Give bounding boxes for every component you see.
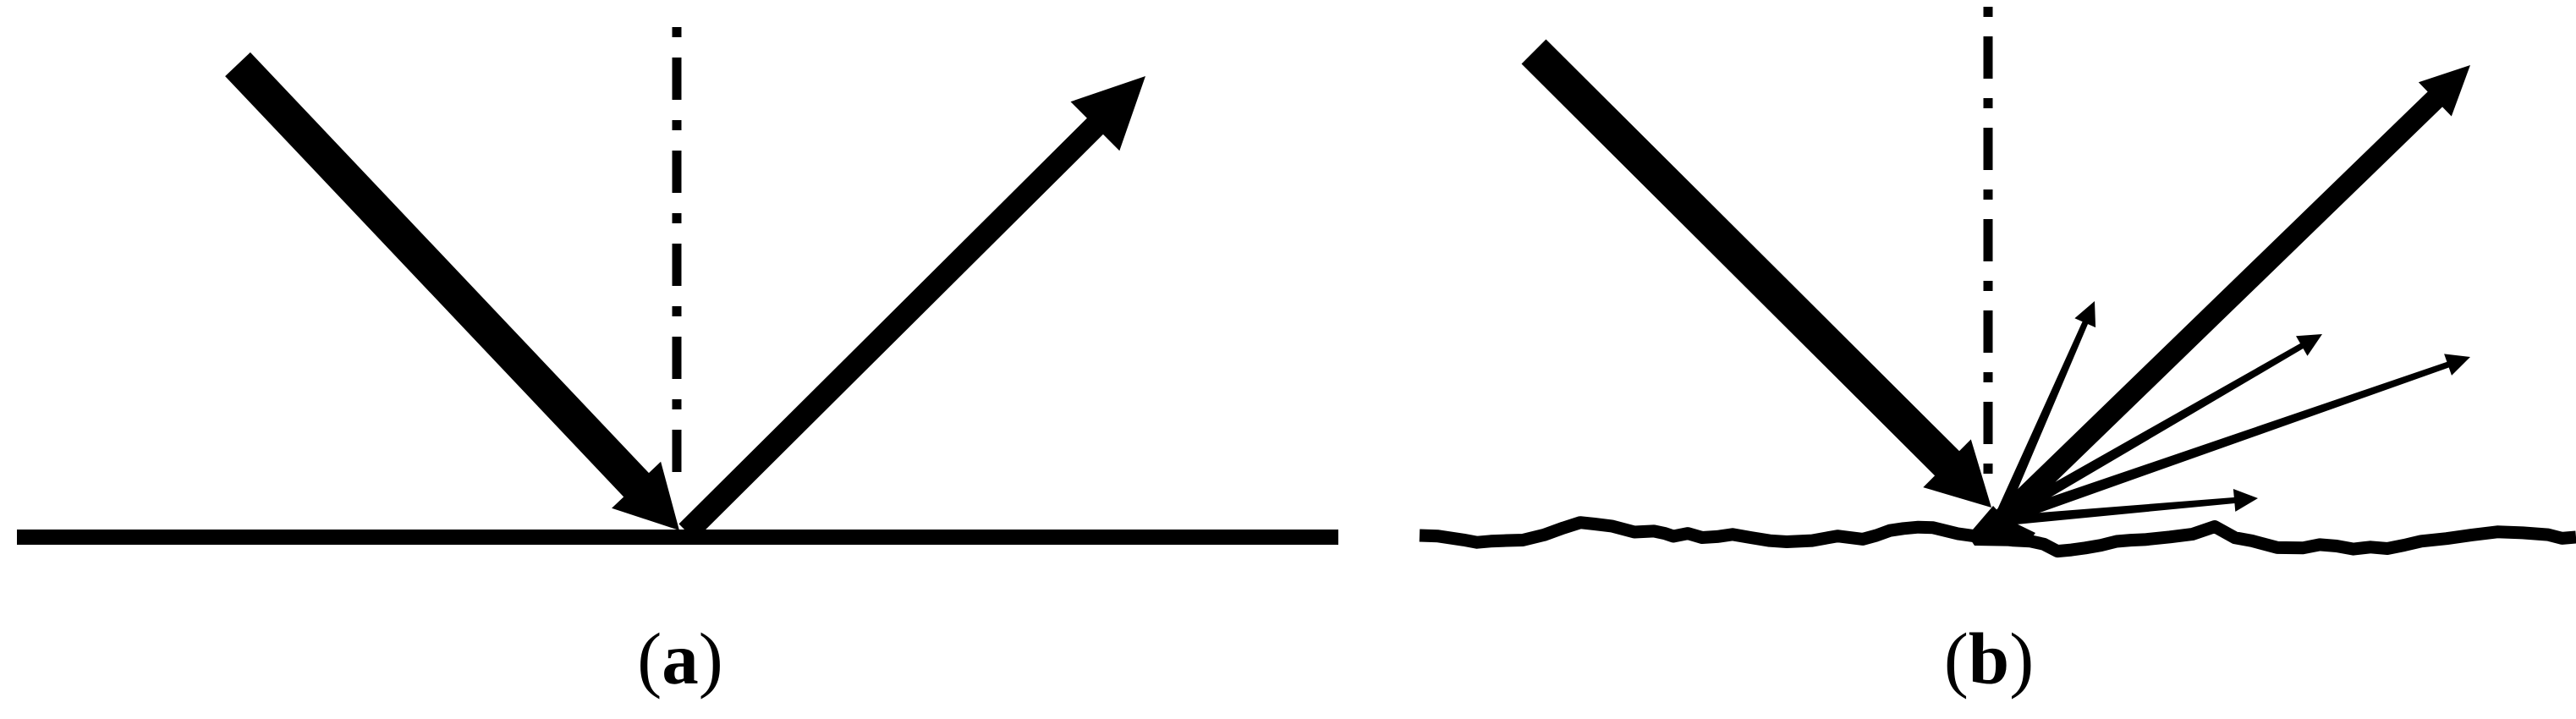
surface normal dash-dot line (b): [1984, 7, 1993, 482]
flat surface (a): [17, 530, 1338, 545]
surface normal dash-dot line (a): [673, 27, 682, 479]
panel label (a): [637, 617, 722, 700]
reflected ray arrow (a): [687, 76, 1145, 532]
incident ray arrow (b): [1534, 52, 1991, 508]
diffuse scattered ray 4 (near horizontal): [1998, 489, 2259, 526]
scattering point blob where rays meet rough surface: [1968, 506, 2035, 546]
rough surface (b): [1420, 523, 2576, 552]
incident ray arrow (a): [238, 64, 679, 530]
panel label (b): [1944, 617, 2034, 700]
svg-text:(b): (b): [1944, 617, 2034, 700]
svg-text:(a): (a): [637, 617, 722, 700]
diffuse scattered ray 3: [1997, 354, 2470, 526]
diffuse scattered ray 2: [1996, 334, 2323, 526]
specular reflected ray arrow (b): [1999, 65, 2470, 522]
diffuse scattered ray 1 (steep): [1993, 301, 2095, 524]
